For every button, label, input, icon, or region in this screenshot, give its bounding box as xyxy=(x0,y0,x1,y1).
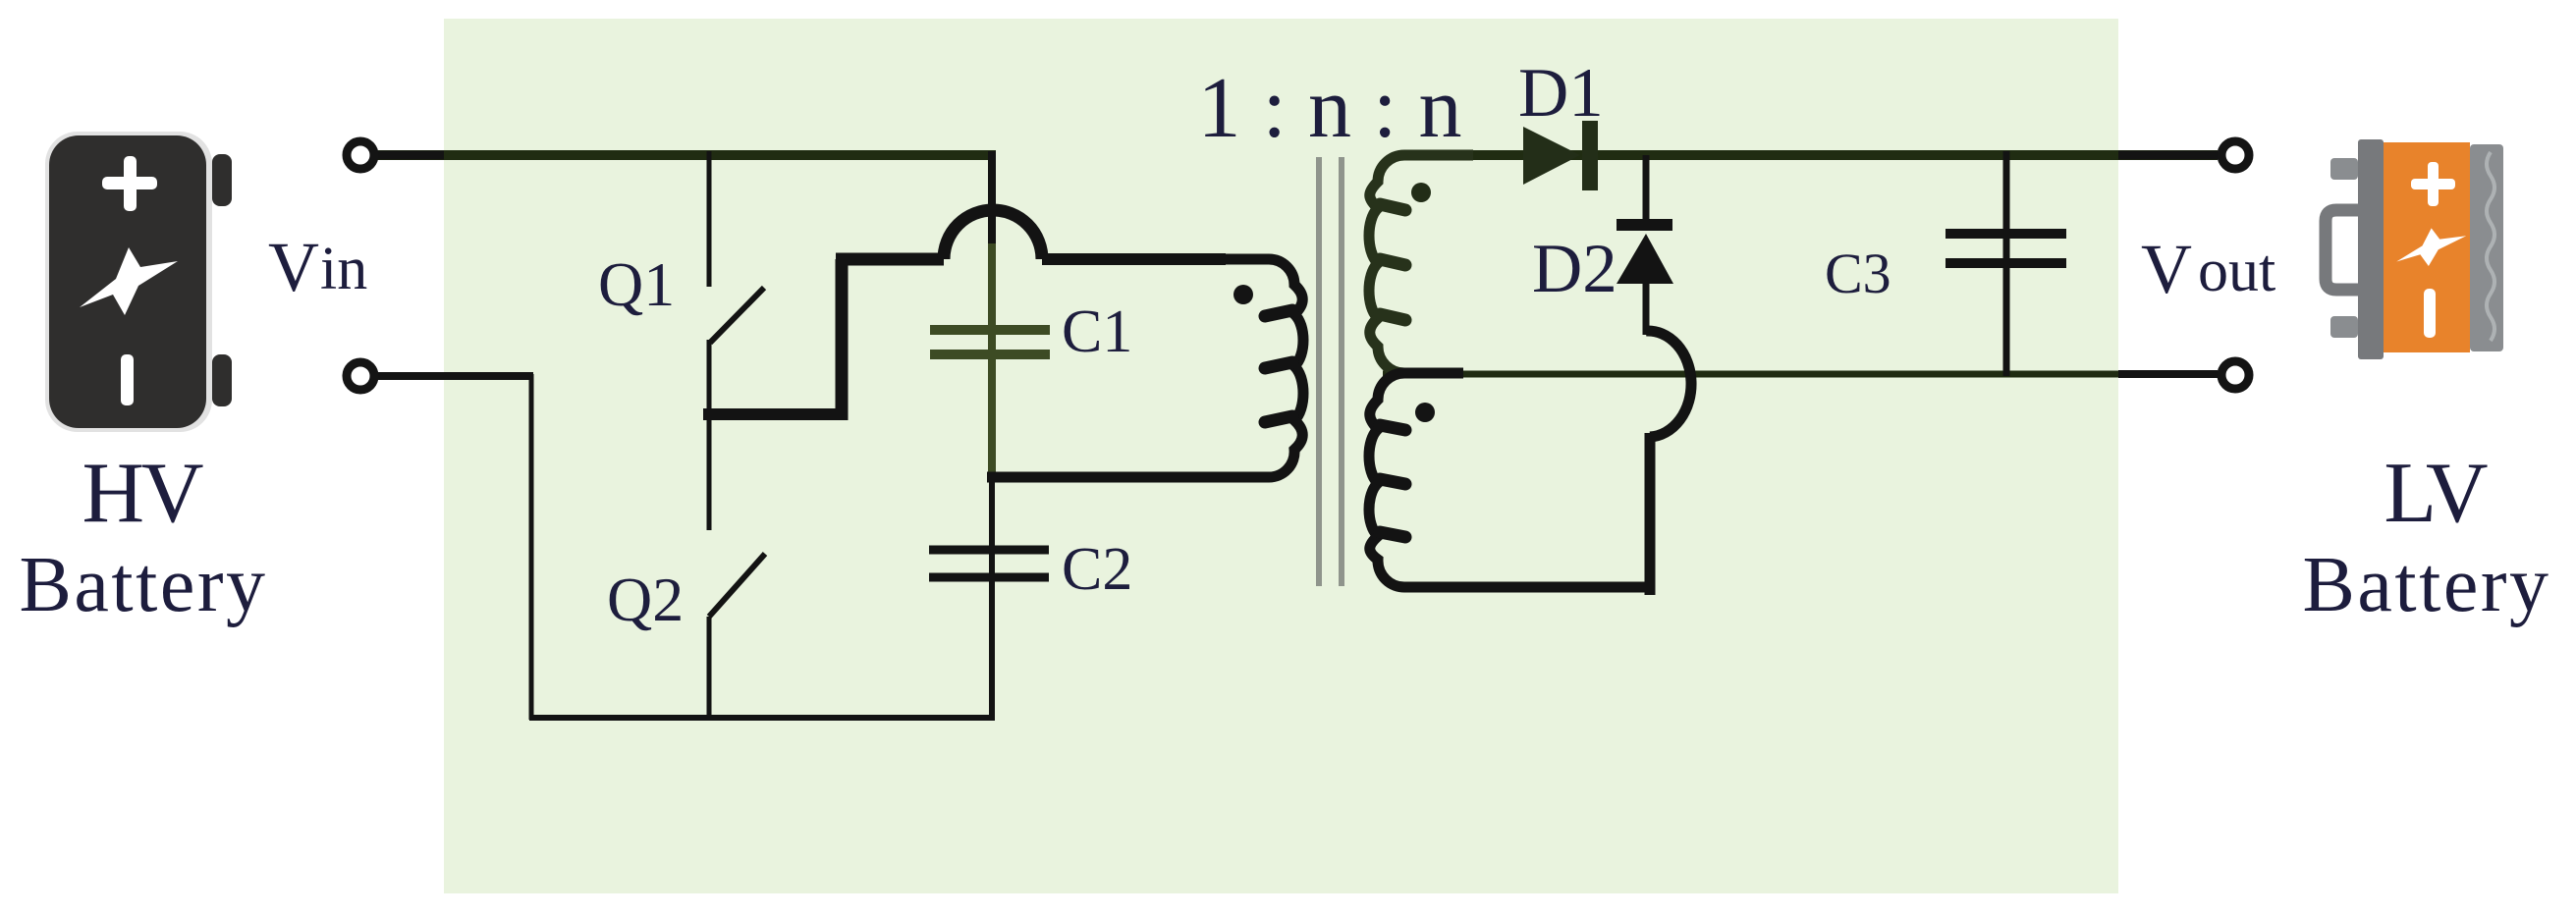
svg-text:V: V xyxy=(2141,230,2192,308)
svg-text:Q1: Q1 xyxy=(598,249,675,319)
svg-text:HV: HV xyxy=(82,446,203,541)
svg-text:Battery: Battery xyxy=(2303,542,2551,628)
svg-text:in: in xyxy=(320,236,367,302)
svg-text:1 : n : n: 1 : n : n xyxy=(1198,61,1462,156)
svg-text:C3: C3 xyxy=(1825,242,1891,305)
svg-text:Battery: Battery xyxy=(20,542,268,628)
svg-text:C1: C1 xyxy=(1062,298,1132,365)
svg-text:D1: D1 xyxy=(1518,55,1604,132)
svg-text:V: V xyxy=(268,228,319,306)
svg-text:out: out xyxy=(2198,238,2275,304)
svg-text:C2: C2 xyxy=(1062,536,1132,603)
svg-text:Q2: Q2 xyxy=(607,565,684,634)
svg-text:D2: D2 xyxy=(1532,231,1617,307)
svg-text:LV: LV xyxy=(2384,446,2488,541)
